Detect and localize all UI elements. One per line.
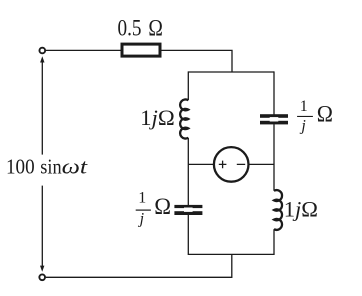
wire bridge right column lower bbox=[273, 229, 275, 255]
resistor R1 bbox=[122, 44, 160, 56]
svg-text:1: 1 bbox=[300, 98, 308, 115]
svg-text:0.5: 0.5 bbox=[118, 16, 142, 41]
wire bottom return bbox=[46, 254, 232, 277]
wire bridge right column upper bbox=[273, 71, 275, 114]
svg-text:Ω: Ω bbox=[154, 194, 171, 219]
label 1/j Ω right bbox=[297, 98, 333, 134]
wire bridge bottom rail bbox=[188, 253, 274, 255]
inductor L2 bbox=[274, 190, 282, 230]
source line lower segment with down arrow bbox=[40, 186, 44, 272]
label 1jΩ right bbox=[284, 196, 318, 221]
wire bridge right column middle bbox=[273, 124, 275, 191]
svg-text:sin: sin bbox=[40, 155, 62, 179]
svg-text:Ω: Ω bbox=[317, 101, 333, 126]
terminal T2 (bottom-left) bbox=[39, 274, 45, 280]
svg-text:Ω: Ω bbox=[148, 16, 163, 41]
svg-text:1jΩ: 1jΩ bbox=[284, 196, 318, 221]
source line upper segment with up arrow bbox=[40, 56, 44, 154]
wire bridge middle rail bbox=[188, 163, 274, 165]
terminal T1 (top-left) bbox=[39, 48, 45, 54]
svg-text:1: 1 bbox=[138, 190, 146, 207]
inductor L1 bbox=[180, 99, 188, 138]
svg-text:ωt: ωt bbox=[62, 155, 89, 179]
capacitor C1 (left) plates bbox=[174, 205, 202, 215]
label 0.5 Ω bbox=[118, 16, 163, 41]
svg-text:j: j bbox=[138, 211, 145, 228]
wire top rail bbox=[46, 49, 122, 51]
wire bridge left column middle bbox=[187, 138, 189, 205]
wire resistor to corner bbox=[162, 50, 233, 72]
wire bridge left column lower bbox=[187, 215, 189, 255]
svg-text:1jΩ: 1jΩ bbox=[140, 105, 175, 130]
wire bridge left column upper bbox=[187, 71, 189, 100]
voltage source U1 bbox=[214, 147, 249, 182]
label 1/j Ω left bbox=[136, 190, 171, 228]
svg-text:j: j bbox=[299, 118, 306, 135]
svg-text:100: 100 bbox=[6, 155, 35, 179]
capacitor C2 (right) plates bbox=[260, 114, 288, 124]
label 100 sin ωt bbox=[6, 155, 89, 179]
wire bridge top rail bbox=[188, 71, 274, 73]
label 1jΩ left bbox=[140, 105, 175, 130]
